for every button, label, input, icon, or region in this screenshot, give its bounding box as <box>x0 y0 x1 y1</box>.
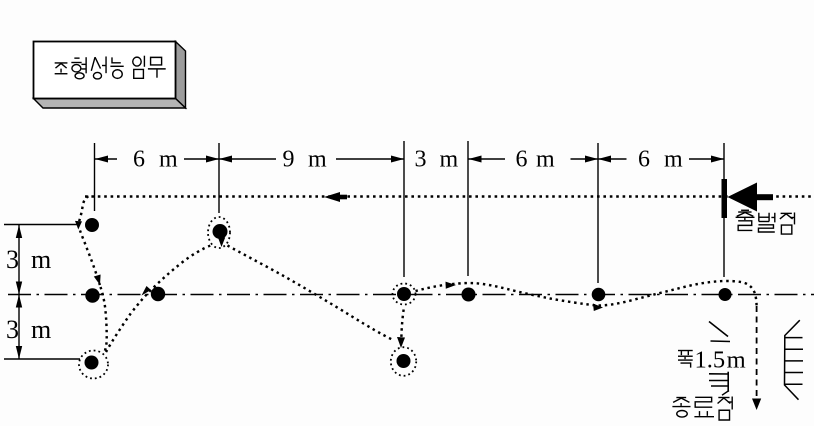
trajectory: D to E diagonal <box>106 246 211 353</box>
finish label: 종료점 <box>672 397 732 421</box>
dimension 6m arrows (95-219) <box>95 156 219 163</box>
svg-text:3: 3 <box>6 245 19 274</box>
start label: 출발점 <box>736 210 795 234</box>
trajectory arrow below I <box>593 304 603 312</box>
svg-text:3: 3 <box>6 315 19 344</box>
obstacle dot F <box>397 287 411 301</box>
obstacle dot A <box>85 218 99 232</box>
svg-text:1.5m: 1.5m <box>695 347 746 374</box>
curb mark lower (between width and finish labels) <box>709 372 729 396</box>
obstacle dot C <box>151 287 165 301</box>
dimension tick x=467 <box>467 141 469 276</box>
center dash-dot line <box>8 294 814 296</box>
finish descent dashed line <box>756 306 758 397</box>
dimension 6m arrows (598-724) <box>598 156 724 163</box>
obstacle dot E <box>213 224 228 239</box>
obstacle dot B <box>85 288 99 302</box>
obstacle dot I <box>592 288 606 302</box>
svg-text:m: m <box>31 315 51 344</box>
obstacle dot D <box>85 356 99 370</box>
left arrow on return line <box>324 192 347 202</box>
dimension 6m arrows (467-598) <box>469 156 599 163</box>
top return dotted line <box>85 195 814 198</box>
obstacle dot G <box>462 288 476 302</box>
trajectory: E to H diagonal <box>228 246 394 341</box>
trajectory arrow above H <box>397 337 405 348</box>
trajectory: B to D segment <box>101 287 107 352</box>
trajectory: left descent curve <box>79 197 100 286</box>
dimension tick x=219 <box>218 143 220 213</box>
barrier hatch right <box>785 320 804 400</box>
dimension 9m arrows (219-403) <box>219 156 404 163</box>
left reference line bottom <box>4 358 80 360</box>
left reference line top <box>4 224 80 226</box>
start marker bar <box>722 179 728 218</box>
left vertical dimension line <box>18 225 20 359</box>
start marker big arrow <box>728 183 758 212</box>
trajectory: F to J curve <box>416 281 757 307</box>
svg-text:6m: 6m <box>516 147 556 173</box>
dimension tick x=724 <box>723 143 725 277</box>
trajectory arrow near C <box>142 286 152 296</box>
dimension tick x=403 <box>403 141 405 277</box>
dotted ellipse around F <box>393 284 416 305</box>
width label: 폭1.5 m <box>678 347 746 374</box>
trajectory arrow after F <box>446 282 457 289</box>
title box face <box>34 42 176 99</box>
dotted ellipse around H <box>391 347 416 376</box>
dimension tick x=598 <box>597 143 599 283</box>
curb mark upper (above width label) <box>709 322 730 342</box>
dotted ellipse around D <box>79 351 108 379</box>
dotted ellipse around E <box>208 217 230 248</box>
title text: 조향성능 임무 <box>55 56 166 79</box>
obstacle dot J <box>719 288 732 301</box>
dimension tick x=95 <box>94 143 96 211</box>
left dim arrows <box>16 225 22 359</box>
trajectory arrow above centerline <box>94 275 101 286</box>
svg-text:m: m <box>31 245 51 274</box>
trajectory arrow near A <box>75 221 82 230</box>
trajectory arrow below E <box>218 237 225 247</box>
obstacle dot H <box>397 354 411 368</box>
start marker tail <box>757 194 773 200</box>
title box 3D side faces <box>34 42 186 109</box>
finish arrowhead <box>752 399 761 411</box>
trajectory: H to F connector <box>401 307 404 343</box>
